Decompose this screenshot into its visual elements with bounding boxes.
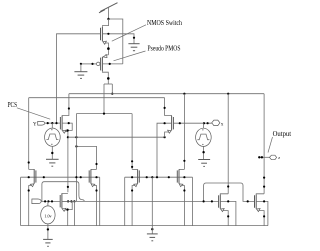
transistor M3 PCS switch (60, 94, 72, 138)
node: x77 on y146 (75, 145, 77, 147)
node: wire137 start (67, 136, 69, 138)
transistor T5 (219, 94, 236, 226)
node: tag pin (44, 200, 46, 202)
current source I2 (196, 123, 212, 159)
wire: bus2 (29, 97, 165, 99)
wire: drop rail left of C (124, 177, 126, 225)
node: bus1 to T5 drain rail (227, 93, 229, 95)
port Output tag (258, 155, 280, 160)
wire: drop rail right of B (99, 177, 101, 225)
wire: gate bus C-D (125, 176, 193, 178)
wire: M2 drain T split (104, 84, 112, 114)
wire: tag bus y201 (42, 200, 61, 202)
node: A drain pin (28, 161, 30, 163)
wire: rail bus1 to D drain (183, 94, 185, 170)
wire: Y to M3 gate (45, 122, 61, 124)
wire: vertical x77 (75, 114, 77, 202)
svg-text:1.0v: 1.0v (44, 213, 51, 218)
wire: net source M3 down to M5 (67, 137, 69, 192)
transistor M2 Pseudo PMOS (96, 55, 108, 84)
ground G4 under I2 (198, 160, 210, 167)
wire: rounded loop V1 to x77 net (42, 182, 84, 202)
wire: M4 gate to X net (173, 122, 211, 124)
wire: box right edge to C drain (131, 114, 133, 170)
node: M2 drain branch on box (103, 113, 105, 115)
svg-text:PCS: PCS (8, 101, 18, 109)
wire: bottom bus (21, 225, 268, 227)
wire: row gate bus y177 (21, 176, 100, 178)
node: M2 drain pin (107, 77, 110, 80)
node: CS1 top (51, 122, 53, 124)
node: M2 gate pin (91, 63, 93, 65)
node: x77 on y137 (75, 136, 77, 138)
port V1 tag (32, 199, 41, 204)
node: B drain pin (95, 163, 97, 165)
wire: branch x74 to bottom bus (73, 201, 75, 225)
transistor T6 (255, 94, 268, 226)
node: bus1 to D drain rail (183, 93, 185, 95)
switch blade S1 (99, 3, 118, 13)
node: D drain pin (183, 160, 185, 162)
port Y input tag (33, 121, 45, 127)
transistor MA (28, 169, 36, 225)
node: M1 drain junction (107, 18, 109, 20)
transistor M1 NMOS Switch (101, 19, 109, 55)
transistor M5 (60, 186, 75, 226)
node: Y tag pin (47, 122, 49, 124)
node: X tag pin (207, 122, 209, 124)
svg-text:Pseudo PMOS: Pseudo PMOS (148, 43, 181, 52)
node: G1 junction (80, 63, 82, 65)
ground G3 under I1 (46, 159, 59, 166)
wire: M1 gate from left rail (57, 34, 101, 123)
wire: y137 across (68, 136, 165, 138)
ground G2 (128, 44, 139, 51)
wire: rail bus2 to A drain (28, 98, 30, 170)
node: center ground junction (151, 228, 153, 230)
svg-text:Output: Output (273, 130, 292, 138)
port X tag (212, 120, 224, 127)
ground G5 under V2 (43, 239, 53, 246)
transistor MB (89, 169, 97, 225)
voltage source V2 1.0v (41, 201, 55, 239)
wire: long bus y201 to T5 (62, 200, 219, 202)
wire: M1 bulk to ground G2 (102, 34, 134, 44)
node: M4 gate pin (179, 122, 181, 124)
svg-text:z: z (278, 155, 280, 160)
node: G2 stem (133, 37, 135, 39)
node: third dot (51, 200, 53, 202)
current source I1 (45, 123, 61, 159)
node: C drain pin (131, 160, 133, 162)
node: V2 top (47, 200, 49, 202)
wire: left rail x20 (20, 177, 22, 225)
node: CS2 top (203, 122, 205, 124)
wire: box top edge (76, 113, 132, 115)
transistor M4 mirror NMOS (157, 98, 173, 178)
node: left rail junction (55, 122, 57, 124)
wire: bottom-right loop (203, 183, 255, 202)
wire: switch to node VDD top (108, 7, 110, 19)
wire: M2 gate to ground G1 (81, 63, 97, 65)
svg-text:Y: Y (33, 122, 37, 127)
wire: M2 bulk to right loop (102, 63, 122, 65)
ground G1 (74, 64, 87, 79)
wire: bus1 (69, 93, 264, 95)
ground G6 center (147, 226, 158, 241)
node: M1 bulk pin (107, 33, 109, 35)
node: row dots (28, 176, 186, 178)
node: M4 source end of y137 (164, 136, 166, 138)
transistor MC (131, 169, 139, 225)
leader line to M1 (112, 25, 146, 41)
leader line PCS (17, 108, 50, 119)
leader line to M2 (114, 51, 146, 61)
node: M1 source / M2 source junction (107, 47, 110, 50)
transistor MD (177, 169, 185, 225)
node: M2 bulk pin (109, 63, 111, 65)
wire: y146 B drain link (76, 146, 96, 169)
wire: drop rail right of D (192, 177, 194, 225)
svg-text:NMOS Switch: NMOS Switch (147, 18, 182, 27)
wire: x152 gate-bus to bottom (151, 177, 153, 225)
node: bus1 junction at 112.3 (111, 93, 113, 95)
wire: top loop right (109, 19, 123, 64)
leader line Output (268, 137, 273, 153)
